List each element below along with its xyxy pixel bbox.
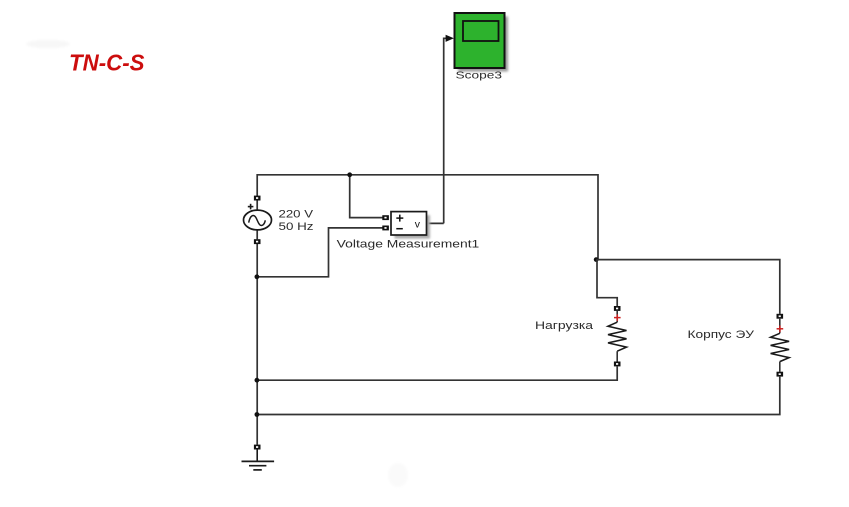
wire scope input (444, 35, 454, 224)
AC source V1 circle (244, 210, 272, 230)
wire load resistor bottom to left rail (255, 366, 618, 382)
scope U_Scope3 (455, 13, 505, 68)
node right branch junction (594, 257, 599, 262)
port source bottom (254, 239, 261, 244)
ground (242, 450, 275, 470)
port load resistor bottom (614, 362, 621, 367)
label Нагрузка (535, 320, 594, 332)
wire to chassis resistor top (596, 260, 780, 314)
svg-text:Корпус ЭУ: Корпус ЭУ (688, 329, 756, 341)
wire bottom bus (255, 377, 780, 417)
polarity plus of chassis resistor (777, 326, 784, 333)
svg-text:50 Hz: 50 Hz (279, 221, 314, 233)
port chassis resistor bottom (777, 372, 784, 377)
wire left vertical (source to ground) (256, 201, 258, 445)
svg-text:220 V: 220 V (279, 209, 314, 221)
port ground (254, 445, 261, 450)
resistor R2 Корпус ЭУ (771, 319, 790, 372)
port voltmeter minus (382, 226, 389, 231)
polarity plus of load resistor (614, 314, 621, 321)
wire top bus (257, 175, 598, 260)
label Корпус ЭУ (688, 329, 756, 341)
voltmeter U1 Voltage Measurement1 (391, 212, 427, 235)
port voltmeter plus (382, 215, 389, 220)
polarity plus of source (248, 204, 254, 210)
port source top (254, 196, 261, 201)
svg-text:Scope3: Scope3 (456, 70, 503, 82)
wire voltmeter output (427, 222, 444, 224)
voltmeter U1 shadow (395, 215, 431, 238)
faint smudge bottom center (388, 463, 408, 487)
wire to load resistor top (597, 260, 617, 307)
label Voltage Measurement1 (337, 239, 480, 251)
wire minus input of voltmeter (255, 228, 384, 279)
scope U_Scope3 shadow (458, 17, 508, 72)
port load resistor top (614, 306, 621, 311)
faint smudge top left (26, 40, 70, 48)
svg-text:v: v (415, 218, 421, 230)
resistor R1 Нагрузка (608, 311, 627, 362)
label 220 V 50 Hz (279, 209, 314, 233)
label TN-C-S (69, 49, 145, 75)
label Scope3 (456, 70, 503, 82)
svg-text:TN-C-S: TN-C-S (69, 49, 145, 75)
svg-text:Voltage Measurement1: Voltage Measurement1 (337, 239, 480, 251)
svg-text:Нагрузка: Нагрузка (535, 320, 594, 332)
port chassis resistor top (777, 314, 784, 319)
wire plus input of voltmeter (347, 172, 382, 217)
